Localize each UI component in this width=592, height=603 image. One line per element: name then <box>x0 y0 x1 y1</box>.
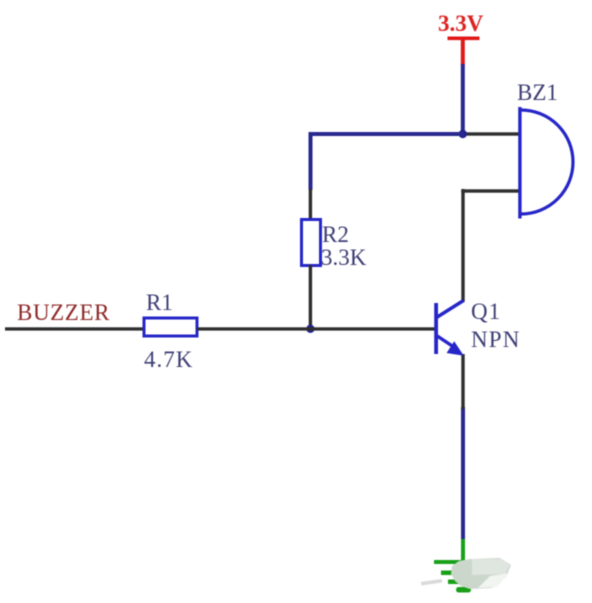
wire blue down from corner <box>309 132 313 190</box>
wire dark above R2 <box>309 189 312 220</box>
wire base horizontal <box>197 327 436 330</box>
power bar <box>448 37 480 41</box>
wire dark below R2 <box>309 265 312 329</box>
svg-text:BUZZER: BUZZER <box>17 300 110 325</box>
ground <box>434 560 491 593</box>
svg-text:BZ1: BZ1 <box>517 80 558 105</box>
svg-text:NPN: NPN <box>471 327 521 352</box>
resistor R1 <box>144 318 197 336</box>
wire blue from power to junction <box>461 64 465 134</box>
wire dark collector vertical <box>461 189 464 302</box>
svg-text:R1: R1 <box>146 290 173 315</box>
svg-text:3.3V: 3.3V <box>438 11 484 36</box>
wire blue emitter vertical <box>461 407 465 539</box>
transistor Q1 <box>434 301 464 356</box>
wire green emitter-to-ground <box>461 537 465 562</box>
wire buzzer lower pin <box>461 189 520 192</box>
resistor R2 <box>302 220 321 266</box>
svg-text:4.7K: 4.7K <box>144 347 193 372</box>
wire dark emitter vertical <box>461 354 464 409</box>
wire buzzer upper pin <box>462 132 520 135</box>
wire top horizontal <box>309 132 465 136</box>
wire red vertical <box>461 38 465 65</box>
wire left lead <box>5 327 144 330</box>
svg-text:3.3K: 3.3K <box>321 245 367 270</box>
junction dot middle <box>306 325 314 333</box>
watermark blob <box>421 558 511 589</box>
svg-text:R2: R2 <box>322 222 349 247</box>
svg-text:Q1: Q1 <box>471 299 501 324</box>
junction dot top <box>459 130 467 138</box>
buzzer BZ1 <box>518 107 573 219</box>
